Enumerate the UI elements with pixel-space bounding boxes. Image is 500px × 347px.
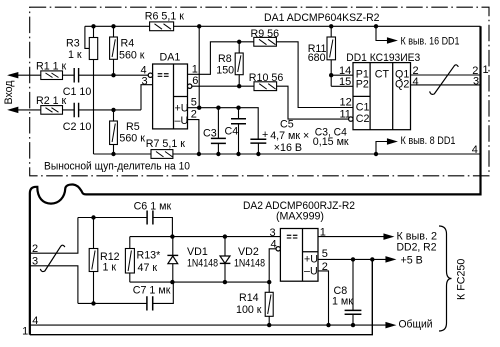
svg-text:560 к: 560 к — [119, 50, 145, 62]
svg-text:0,15 мк: 0,15 мк — [313, 136, 349, 148]
svg-text:4: 4 — [472, 144, 478, 156]
resistor R11 — [327, 26, 336, 86]
svg-text:1N4148: 1N4148 — [187, 258, 218, 270]
svg-text:5: 5 — [191, 97, 197, 109]
svg-text:R2 1 к: R2 1 к — [36, 95, 67, 107]
svg-text:3: 3 — [270, 227, 276, 239]
svg-text:R6 5,1 к: R6 5,1 к — [145, 11, 184, 23]
svg-text:Вход: Вход — [3, 80, 15, 105]
counter DD1 — [349, 63, 411, 130]
wire 2 input — [30, 218, 78, 254]
resistor R10 — [254, 82, 277, 91]
svg-text:CT: CT — [375, 68, 390, 80]
svg-text:1: 1 — [22, 326, 28, 338]
svg-text:C5: C5 — [280, 119, 294, 131]
resistor R8 — [235, 42, 243, 86]
tap to pin 16 DD1 — [376, 26, 388, 40]
diode VD1 — [167, 237, 178, 283]
capacitor C2 — [74, 103, 78, 118]
+U rail with C3 C4 C5 — [188, 108, 259, 139]
input wire lower — [9, 109, 141, 111]
svg-text:1: 1 — [192, 64, 198, 76]
svg-text:100 к: 100 к — [236, 304, 262, 316]
svg-text:1: 1 — [483, 64, 489, 76]
DA1 == symbol — [158, 74, 169, 77]
DA1 pin6 wire through R10 to DD1 pin 11 — [192, 86, 349, 119]
diode VD2 — [220, 237, 231, 283]
svg-text:C3: C3 — [203, 127, 217, 139]
svg-text:R9 56: R9 56 — [251, 28, 280, 40]
svg-text:2: 2 — [322, 261, 328, 273]
DA1 -U pin2 wire down to bottom rail — [188, 120, 199, 154]
svg-text:5: 5 — [322, 248, 328, 260]
DD1 output wires to cable — [411, 75, 481, 85]
svg-text:11: 11 — [340, 109, 351, 121]
capacitor C4 — [238, 108, 240, 154]
resistor R5 — [110, 110, 118, 154]
svg-text:15: 15 — [339, 76, 351, 88]
svg-text:R4: R4 — [121, 38, 135, 50]
DA2 == symbol — [287, 235, 298, 238]
input arrow lower — [9, 107, 18, 112]
svg-text:1 к: 1 к — [68, 49, 82, 61]
svg-text:2: 2 — [32, 243, 38, 255]
wire: top supply rail of probe — [85, 25, 481, 27]
svg-text:–U: –U — [304, 265, 318, 277]
wire 1 +5V along bottom — [30, 259, 372, 334]
svg-text:R5: R5 — [126, 121, 140, 133]
probe enclosure dash-dot border — [30, 7, 489, 176]
svg-text:К выв. 16 DD1: К выв. 16 DD1 — [401, 36, 460, 48]
resistor R2 — [41, 106, 63, 115]
svg-text:1 к: 1 к — [103, 262, 117, 274]
tap to pin 8 DD1 — [376, 142, 388, 155]
capacitor C1 — [74, 68, 78, 83]
svg-text:+U: +U — [175, 103, 189, 115]
DD1 pin14 pin15 wires — [331, 75, 353, 86]
probe bottom rail — [94, 153, 481, 155]
+U feed vertical from top rail — [198, 26, 200, 107]
svg-text:К FC250: К FC250 — [456, 259, 468, 300]
capacitor C8 — [352, 259, 354, 325]
svg-text:R1 1 к: R1 1 к — [36, 61, 67, 73]
svg-text:C4: C4 — [225, 125, 239, 137]
svg-text:R13*: R13* — [137, 250, 161, 262]
svg-text:1: 1 — [320, 226, 326, 238]
svg-text:R7 5,1 к: R7 5,1 к — [146, 138, 185, 150]
op-amp comparator DA1 — [148, 64, 192, 129]
svg-text:C1: C1 — [356, 101, 370, 113]
svg-text:P2: P2 — [356, 78, 369, 90]
svg-text:(MAX999): (MAX999) — [276, 211, 324, 223]
svg-text:4: 4 — [271, 239, 277, 251]
DA2 -U pin2 wire down to ground — [318, 271, 329, 325]
svg-text:3: 3 — [142, 76, 148, 88]
svg-text:Q2: Q2 — [395, 78, 409, 90]
svg-text:4,7 мк ×: 4,7 мк × — [270, 130, 309, 142]
input arrow upper — [9, 73, 18, 78]
wire 3 input — [30, 266, 78, 304]
svg-text:C2: C2 — [356, 113, 370, 125]
svg-text:+: + — [262, 129, 268, 141]
svg-text:Общий: Общий — [399, 319, 433, 331]
svg-text:6: 6 — [192, 75, 198, 87]
resistor R13 — [125, 237, 134, 283]
svg-text:150: 150 — [216, 65, 234, 77]
svg-text:R8: R8 — [218, 53, 232, 65]
svg-text:4: 4 — [141, 64, 147, 76]
bottom signal rail with C7 — [78, 282, 173, 303]
wire: R3 side tap from rail — [85, 26, 89, 48]
resistor R9 — [254, 37, 277, 46]
svg-text:VD1: VD1 — [187, 246, 208, 258]
top signal rail with C6 — [78, 218, 172, 237]
capacitor C5 electrolytic — [257, 143, 259, 154]
svg-text:VD2: VD2 — [238, 246, 259, 258]
capacitor C3 — [217, 108, 219, 154]
resistor R4 — [110, 26, 118, 75]
resistor R7 — [151, 150, 173, 159]
svg-text:DD2, R2: DD2, R2 — [397, 242, 437, 254]
svg-text:Выносной щуп-делитель на 10: Выносной щуп-делитель на 10 — [44, 161, 190, 173]
svg-text:+5 В: +5 В — [401, 255, 423, 267]
twisted pair marker bottom — [40, 245, 65, 271]
svg-text:4: 4 — [32, 315, 38, 327]
wire 4 ground rail — [30, 324, 387, 326]
svg-text:4: 4 — [413, 76, 419, 88]
DA2 output pin1 wire — [318, 236, 385, 238]
svg-text:DA1: DA1 — [160, 52, 181, 64]
svg-text:К выв. 8 DD1: К выв. 8 DD1 — [401, 135, 456, 147]
svg-text:C6 1 мк: C6 1 мк — [134, 201, 172, 213]
svg-text:+U: +U — [304, 254, 318, 266]
svg-text:2: 2 — [191, 109, 197, 121]
svg-text:DA1 ADCMP604KSZ-R2: DA1 ADCMP604KSZ-R2 — [264, 12, 380, 24]
resistor R3 — [89, 26, 97, 154]
svg-text:3: 3 — [32, 256, 38, 268]
capacitor C7 — [147, 296, 153, 310]
svg-text:680: 680 — [308, 52, 326, 64]
resistor R6 — [150, 22, 174, 31]
twisted pair marker top — [430, 65, 459, 95]
svg-text:560 к: 560 к — [119, 133, 145, 145]
DA2 +U pin5 wire — [318, 258, 387, 260]
resistor R14 — [265, 282, 273, 325]
svg-text:3: 3 — [473, 76, 479, 88]
wire pin4 DA2 to R14 node — [269, 249, 276, 282]
svg-text:47 к: 47 к — [138, 262, 158, 274]
svg-text:R3: R3 — [66, 38, 80, 50]
op-amp comparator DA2 — [276, 229, 318, 282]
DA1 pin1 wire up to feedback rail — [188, 42, 354, 108]
svg-text:C1 10: C1 10 — [63, 86, 92, 98]
capacitor C6 — [147, 211, 153, 225]
input wire upper — [9, 74, 148, 76]
svg-text:C7 1 мк: C7 1 мк — [133, 285, 171, 297]
svg-text:×16 В: ×16 В — [274, 142, 302, 154]
svg-text:1N4148: 1N4148 — [234, 258, 265, 270]
svg-text:C2 10: C2 10 — [63, 121, 92, 133]
DA2 minus input rail — [130, 281, 269, 283]
DA2 plus input rail — [130, 236, 281, 238]
svg-text:1 мк: 1 мк — [332, 296, 353, 308]
brace К FC250 — [439, 226, 452, 331]
svg-text:R14: R14 — [239, 292, 259, 304]
resistor R12 — [89, 218, 98, 304]
resistor R1 — [41, 71, 63, 80]
svg-text:R10 56: R10 56 — [249, 72, 284, 84]
svg-text:12: 12 — [340, 96, 352, 108]
wire to DA1 pin3 — [141, 85, 153, 110]
svg-text:DD1 КС193ИЕ3: DD1 КС193ИЕ3 — [346, 52, 420, 64]
svg-text:–U: –U — [175, 115, 189, 127]
